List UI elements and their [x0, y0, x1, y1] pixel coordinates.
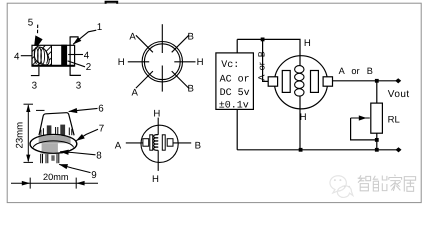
tube body rectangle: [32, 45, 75, 66]
power supply Vc box: [216, 53, 254, 110]
sensor circle: [274, 56, 327, 109]
watermark icon (chat bubbles): [330, 176, 353, 198]
pinout outer circle: [142, 42, 182, 82]
pin B lead: [173, 142, 191, 144]
junction node RL bottom rail: [375, 148, 379, 152]
sensing layer hatch: [32, 46, 51, 66]
electrode bar (black): [62, 45, 67, 65]
svg-text:9: 9: [91, 170, 96, 181]
svg-text:B: B: [188, 31, 194, 42]
resistor RL top lead: [376, 81, 378, 103]
pin H bottom lead: [157, 150, 159, 171]
svg-text:4: 4: [14, 51, 20, 62]
cap (anti-explosion mesh housing): [39, 113, 74, 136]
base ring inner arc: [33, 141, 73, 147]
heater coil: [154, 135, 159, 151]
base shading lower block: [42, 143, 58, 154]
output terminal diamond top: [395, 78, 401, 83]
wire: box bottom to bottom rail: [236, 109, 238, 149]
sensor plate left: [282, 71, 290, 93]
bottom rail wire: [237, 149, 397, 151]
zhi: [358, 175, 371, 191]
svg-text:B: B: [195, 140, 201, 151]
svg-text:3: 3: [76, 81, 82, 92]
sensor lead box right: [323, 77, 332, 86]
svg-text:H: H: [153, 109, 160, 120]
heater coil teardrop: [34, 47, 49, 65]
svg-text:H: H: [118, 57, 125, 68]
resistor RL: [371, 103, 383, 133]
neng: [373, 176, 387, 192]
top rail wire: [237, 39, 300, 65]
label 5 arrowhead: [34, 35, 42, 45]
electrode plate left: [150, 135, 153, 150]
junction node sensor H bottom: [299, 148, 303, 152]
svg-text:1: 1: [97, 22, 102, 33]
svg-text:Vout: Vout: [388, 89, 410, 100]
svg-text:A: A: [115, 140, 122, 151]
tube bottom thick edge: [32, 65, 75, 67]
internal posts: [41, 125, 72, 136]
svg-text:H: H: [197, 57, 204, 68]
resistor RL bottom lead: [376, 133, 378, 150]
electrode plate right: [162, 135, 165, 150]
svg-text:4: 4: [84, 50, 90, 61]
dimension 20mm: [11, 178, 98, 189]
svg-text:DC 5v: DC 5v: [220, 88, 250, 99]
junction node on B wire: [375, 79, 379, 83]
pin H top lead: [157, 118, 159, 135]
jia: [389, 175, 402, 191]
svg-text:3: 3: [32, 81, 38, 92]
svg-text:A or B: A or B: [257, 51, 267, 80]
wiper return wire: [351, 118, 377, 140]
svg-text:B: B: [188, 83, 194, 94]
svg-text:±0.1v: ±0.1v: [219, 100, 249, 111]
junction node wiper/RL bottom: [375, 138, 379, 142]
svg-text:Vc:: Vc:: [221, 60, 239, 71]
watermark text 智能家居: [358, 175, 416, 192]
svg-text:AC or: AC or: [220, 75, 250, 86]
svg-text:5: 5: [28, 18, 34, 29]
sensor bottom lead: [299, 96, 301, 150]
wire sensor B to output: [333, 80, 397, 82]
wiper arrow: [351, 117, 370, 119]
svg-text:7: 7: [99, 124, 104, 135]
svg-text:H: H: [152, 174, 159, 185]
lead box A: [143, 139, 149, 147]
sensor heater coil: [295, 66, 304, 97]
svg-text:23mm: 23mm: [14, 122, 25, 149]
pin rays: [128, 24, 196, 91]
right clamp bracket: [70, 36, 81, 76]
output terminal diamond bottom: [396, 147, 402, 152]
sensor lead box left: [268, 77, 277, 86]
base ring: [30, 135, 77, 154]
svg-text:A: A: [129, 31, 136, 42]
svg-text:H: H: [304, 38, 311, 49]
lead box B: [167, 139, 173, 147]
pins: [41, 154, 59, 163]
svg-text:H: H: [300, 112, 307, 123]
base shading upper band: [39, 136, 71, 143]
heater coil loops: [35, 48, 48, 64]
svg-text:A: A: [132, 87, 139, 98]
symbol circle: [141, 125, 178, 162]
base ring outline redrawn: [30, 135, 77, 154]
ju: [404, 177, 415, 192]
svg-text:8: 8: [96, 151, 102, 162]
wire: box top to top rail: [236, 39, 238, 53]
svg-text:A or B: A or B: [339, 66, 373, 76]
sensing block right edge: [51, 45, 53, 65]
junction node on top rail: [261, 38, 265, 42]
svg-text:2: 2: [86, 62, 91, 73]
dimension 23mm: [24, 104, 45, 162]
pinout inner circle: [144, 44, 180, 80]
svg-text:6: 6: [98, 103, 104, 114]
sensor plate right: [311, 71, 319, 93]
cropped glyph remnant at top edge: [106, 2, 118, 4]
svg-text:RL: RL: [388, 114, 400, 125]
pin A lead: [126, 142, 143, 144]
wire A-or-B drop: [263, 41, 269, 81]
svg-text:20mm: 20mm: [43, 172, 69, 182]
